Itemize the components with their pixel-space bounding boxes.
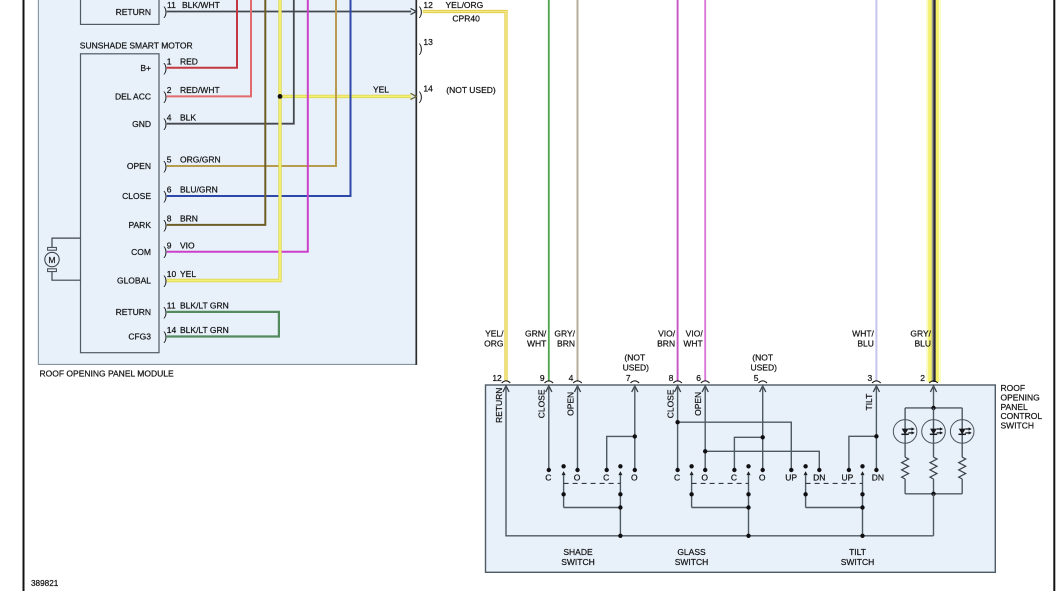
svg-text:2: 2 (920, 373, 925, 383)
svg-text:UP: UP (785, 472, 797, 482)
module region bottom border (38, 363, 416, 365)
switch pin 2 bracket, number, arrow (929, 381, 938, 383)
wire VIO/WHT to switch pin 6 (704, 0, 706, 382)
wire YEL pin 10 (up at x=280) (167, 0, 280, 281)
left page border line (23, 0, 25, 591)
svg-text:8: 8 (669, 373, 674, 383)
svg-text:COM: COM (131, 247, 151, 257)
glass contact DN1 dot (817, 468, 821, 472)
shade bus junction dot (618, 534, 622, 538)
svg-text:(NOT: (NOT (752, 352, 773, 362)
svg-text:CFG3: CFG3 (128, 332, 151, 342)
switch pin 9 bracket, number, arrow (545, 381, 554, 383)
LED D1 (904, 408, 906, 457)
svg-text:6: 6 (167, 185, 172, 195)
svg-text:BRN: BRN (557, 338, 575, 348)
svg-text:WHT: WHT (683, 338, 702, 348)
svg-text:DEL ACC: DEL ACC (115, 92, 151, 102)
svg-text:OPEN: OPEN (693, 392, 703, 416)
svg-text:WHT/: WHT/ (852, 328, 874, 338)
svg-text:5: 5 (167, 155, 172, 165)
shade contact C2 dot (605, 468, 609, 472)
svg-text:ROOF OPENING PANEL MODULE: ROOF OPENING PANEL MODULE (40, 369, 174, 379)
svg-text:2: 2 (167, 85, 172, 95)
svg-text:BRN: BRN (657, 338, 675, 348)
svg-text:4: 4 (167, 112, 172, 122)
glass moving contact 2 (746, 464, 750, 468)
svg-text:BLU: BLU (914, 338, 931, 348)
glass moving contacts connector (692, 507, 749, 509)
svg-text:UP: UP (841, 472, 853, 482)
resistor R3 (959, 457, 966, 479)
wire ORG/GRN pin 5 (up at x=335.7) (167, 0, 336, 166)
wire RED/WHT pin 2 (up at x=251) (167, 0, 251, 96)
LED D2 (933, 408, 935, 457)
wire WHT/BLU to switch pin 3 (875, 0, 877, 382)
svg-text:GND: GND (132, 119, 151, 129)
glass moving contact 1 (689, 464, 693, 468)
svg-text:O: O (574, 472, 581, 482)
module right edge (415, 0, 417, 365)
svg-text:9: 9 (167, 240, 172, 250)
wire VIO/BRN to switch pin 8 (677, 0, 679, 382)
shade moving contact 2 (618, 464, 622, 468)
svg-text:9: 9 (540, 373, 545, 383)
svg-text:7: 7 (626, 373, 631, 383)
wire VIO pin 9 (up at x=308.2) (167, 0, 308, 252)
wire RED pin 1 (up at x=237) (167, 0, 237, 68)
svg-text:11: 11 (167, 0, 176, 10)
svg-text:CLOSE: CLOSE (665, 389, 675, 418)
glass contact C3 dot (675, 468, 679, 472)
svg-text:C: C (731, 472, 737, 482)
tilt bus junction dot (860, 534, 864, 538)
glass contact UP1 dot (789, 468, 793, 472)
svg-text:SWITCH: SWITCH (561, 557, 595, 567)
resistor R1 (902, 457, 909, 479)
shade contact O2 dot (633, 468, 637, 472)
switch internal wire pin 8 to contact C3 with branch to UP1 (677, 386, 679, 470)
switch pin 8 bracket, number, arrow (673, 381, 682, 383)
svg-text:RED: RED (180, 56, 198, 66)
arrowhead YEL into pin 14 (411, 93, 417, 99)
svg-text:C: C (603, 472, 609, 482)
glass contact O4 dot (761, 468, 765, 472)
svg-text:6: 6 (696, 373, 701, 383)
shade contact O1 dot (575, 468, 579, 472)
svg-text:GLASS: GLASS (677, 547, 706, 557)
svg-text:ORG: ORG (484, 338, 503, 348)
svg-text:10: 10 (167, 269, 177, 279)
svg-text:ORG/GRN: ORG/GRN (180, 155, 221, 165)
svg-text:OPEN: OPEN (565, 392, 575, 416)
arrowhead into pin 12 (411, 8, 417, 14)
svg-text:O: O (631, 472, 638, 482)
motor wire bottom (52, 272, 81, 281)
switch internal wire pin 2 to LED bus (933, 386, 935, 408)
switch internal wire pin 12 RETURN to bus (506, 386, 934, 536)
connector box RETURN (cut off at top) (81, 0, 160, 24)
svg-text:B+: B+ (140, 63, 151, 73)
svg-text:CLOSE: CLOSE (122, 191, 151, 201)
svg-text:RETURN: RETURN (116, 7, 151, 17)
glass linkage dashed (692, 482, 749, 484)
wire resistor bus to main bus (933, 494, 935, 536)
wire BLK/LT GRN loop pins 11-14 (167, 312, 279, 337)
tilt moving contact 1 (803, 464, 807, 468)
shade contact C1 dot (547, 468, 551, 472)
svg-text:CPR40: CPR40 (452, 14, 480, 24)
svg-text:SWITCH: SWITCH (841, 557, 875, 567)
svg-text:14: 14 (167, 325, 177, 335)
svg-text:SHADE: SHADE (563, 547, 593, 557)
right page border line (1053, 0, 1055, 591)
svg-text:): ) (419, 7, 423, 19)
svg-text:): ) (419, 91, 423, 103)
switch internal wire pin 7 to contact O2 with branch to C2 (634, 386, 636, 470)
switch pin 5 bracket, number, arrow (758, 381, 767, 383)
roof opening panel module region (38, 0, 416, 365)
switch internal wire pin 3 to contact DN2 with branch to UP2 (875, 386, 877, 470)
junction dot YEL (278, 94, 283, 99)
wire BLU/GRN pin 6 (up at x=351.5) (167, 0, 351, 196)
svg-text:DN: DN (872, 472, 884, 482)
LED D3 (961, 408, 963, 457)
switch internal wire pin 4 to contact O (577, 386, 579, 470)
svg-text:GRN/: GRN/ (525, 328, 547, 338)
svg-text:USED): USED) (750, 362, 777, 372)
LED top bus (905, 407, 962, 409)
svg-text:C: C (674, 472, 680, 482)
svg-text:WHT: WHT (527, 338, 546, 348)
svg-text:TILT: TILT (849, 547, 866, 557)
svg-text:SUNSHADE SMART MOTOR: SUNSHADE SMART MOTOR (80, 40, 193, 50)
glass contact C4 dot (732, 468, 736, 472)
tilt contact DN2 dot (874, 468, 878, 472)
svg-text:(NOT: (NOT (624, 352, 645, 362)
switch internal wire pin 9 to contact C (548, 386, 550, 470)
svg-text:BLK/WHT: BLK/WHT (182, 0, 220, 10)
svg-text:BLU: BLU (857, 338, 874, 348)
tilt contact UP2 dot (847, 468, 851, 472)
sunshade smart motor box (81, 54, 160, 353)
switch internal wire pin 6 to contact O3 with branch to DN1 (704, 386, 706, 470)
svg-text:YEL: YEL (373, 84, 389, 94)
svg-text:RETURN: RETURN (494, 388, 504, 423)
switch pin 6 bracket, number, arrow (701, 381, 710, 383)
svg-text:RED/WHT: RED/WHT (180, 85, 220, 95)
roof opening panel control switch box (486, 385, 996, 572)
svg-text:3: 3 (867, 373, 872, 383)
svg-text:OPEN: OPEN (127, 161, 151, 171)
svg-text:SWITCH: SWITCH (675, 557, 709, 567)
motor wire top (52, 238, 81, 247)
switch pin 4 bracket, number, arrow (573, 381, 582, 383)
svg-text:YEL/ORG: YEL/ORG (446, 0, 484, 10)
svg-text:1: 1 (167, 56, 172, 66)
wire GRN/WHT to switch pin 9 (548, 0, 550, 382)
svg-text:VIO: VIO (180, 240, 195, 250)
svg-text:YEL/: YEL/ (485, 328, 504, 338)
glass bus junction dot (746, 534, 750, 538)
tilt moving contacts connector (806, 507, 863, 509)
svg-text:O: O (701, 472, 708, 482)
switch pin 7 bracket, number, arrow (631, 381, 640, 383)
shade moving contacts connector (564, 507, 621, 509)
tilt linkage dashed (806, 482, 863, 484)
svg-text:BLK: BLK (180, 112, 196, 122)
svg-text:BLK/LT GRN: BLK/LT GRN (180, 301, 229, 311)
svg-text:BLK/LT GRN: BLK/LT GRN (180, 325, 229, 335)
switch pin 3 bracket, number, arrow (872, 381, 881, 383)
svg-text:BRN: BRN (180, 214, 198, 224)
svg-text:VIO/: VIO/ (658, 328, 676, 338)
motor commutator bottom (48, 269, 57, 272)
wire BRN pin 8 (up at x=265.3) (167, 0, 265, 225)
switch internal wire pin 5 to contact O4 with branch to C4 (762, 386, 764, 470)
svg-text:GRY/: GRY/ (554, 328, 575, 338)
svg-text:11: 11 (167, 301, 176, 311)
wire GRY/BLU highlighted to switch pin 2 (926, 0, 941, 382)
wire BLK/WHT pin 11 to pin 12 (167, 11, 411, 13)
svg-text:GRY/: GRY/ (910, 328, 931, 338)
switch pin 12 bracket, number, arrow (502, 381, 511, 383)
svg-text:CLOSE: CLOSE (537, 389, 547, 418)
wire BLK pin 4 (up at x=294) (167, 0, 294, 124)
svg-text:(NOT USED): (NOT USED) (446, 85, 496, 95)
svg-text:PARK: PARK (128, 220, 151, 230)
wire YEL branch to pin 14 of module connector (280, 95, 411, 98)
svg-text:13: 13 (423, 37, 433, 47)
svg-text:BLU/GRN: BLU/GRN (180, 185, 218, 195)
shade moving contact 1 (561, 464, 565, 468)
svg-text:14: 14 (423, 83, 433, 93)
svg-text:RETURN: RETURN (116, 307, 151, 317)
svg-text:12: 12 (492, 373, 502, 383)
svg-text:YEL: YEL (180, 269, 196, 279)
svg-text:5: 5 (754, 373, 759, 383)
svg-text:O: O (759, 472, 766, 482)
svg-text:VIO/: VIO/ (686, 328, 704, 338)
wire YEL/ORG pin 12 to switch pin 12 (423, 12, 506, 381)
svg-text:8: 8 (167, 214, 172, 224)
svg-text:TILT: TILT (864, 394, 874, 411)
svg-text:389821: 389821 (31, 579, 59, 588)
motor commutator top (48, 247, 57, 250)
shade linkage dashed (564, 482, 621, 484)
svg-text:GLOBAL: GLOBAL (117, 276, 151, 286)
svg-text:): ) (419, 44, 423, 56)
svg-text:USED): USED) (623, 362, 650, 372)
resistor R2 (930, 457, 937, 479)
svg-text:SWITCH: SWITCH (1001, 420, 1035, 430)
glass contact O3 dot (703, 468, 707, 472)
wire GRY/BRN to switch pin 4 (577, 0, 579, 382)
svg-text:M: M (48, 255, 55, 265)
LED resistor bottom bus (905, 493, 962, 495)
tilt moving contact 2 (860, 464, 864, 468)
svg-text:4: 4 (569, 373, 574, 383)
svg-text:DN: DN (813, 472, 825, 482)
svg-text:C: C (545, 472, 551, 482)
module region left border (37, 0, 39, 365)
motor M1 symbol (45, 252, 59, 266)
svg-text:12: 12 (423, 0, 433, 10)
